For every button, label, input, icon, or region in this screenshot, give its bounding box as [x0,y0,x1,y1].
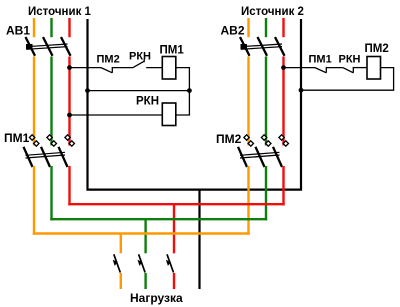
contactor PM1 main contacts [24,135,75,167]
wire load stub phase C [173,273,175,289]
wire phase C drop to load [173,204,175,253]
wire source2 phase C top stub [282,18,284,37]
node junction red-rail1 right [281,65,286,70]
wire neutral source1 vertical+horizontal [88,19,200,190]
wire PM2 coil return loop [301,68,394,91]
label PM2 contactor [216,132,242,146]
contact RKN NO (left circuit) [133,59,162,67]
svg-text:ПМ2: ПМ2 [365,43,389,55]
load switch phase A [113,254,121,272]
wire phase B lower left vertical [50,166,52,220]
node "Нагрузка" label [130,291,183,305]
wire source1 phase A top stub [33,18,35,37]
wire source2 phase B top stub [265,18,267,37]
label RKN coil [136,96,159,108]
wire phase B drop to load [144,219,146,253]
node "Источник 2" label [241,6,304,18]
wire source2 phase B middle [265,57,267,146]
node "Источник 1" label [28,6,92,18]
svg-text:РКН: РКН [136,96,159,108]
wire control2 rail1 [284,67,316,69]
node junction red-rail1 left [67,65,72,70]
label AB2 [221,23,245,37]
svg-text:РКН: РКН [129,50,151,62]
wire control1 rail1 [70,67,102,69]
wire source1 phase A middle [33,57,35,146]
wire phase B lower right vertical [265,166,267,220]
wire control1 rail3 [70,114,163,116]
label PM2 coil [365,43,389,55]
wire phase B bus (green) [50,218,267,220]
label AB1 [6,23,30,37]
svg-text:ПМ1: ПМ1 [4,131,30,145]
wire load stub phase A [120,273,122,289]
wire phase A bus (orange) [33,232,250,234]
node junction red-rail3 left [67,113,72,118]
wire neutral drop to load [198,190,200,289]
wire phase A lower right vertical [247,166,249,235]
svg-text:АВ1: АВ1 [6,23,30,37]
svg-text:Источник 1: Источник 1 [28,6,92,18]
contact PM2 NC (left circuit) [101,67,133,73]
coil RKN [162,103,176,126]
node junction neutral-rail2 left [85,88,90,93]
wire load stub phase B [144,273,146,289]
wire source2 phase A top stub [247,18,249,37]
wire control1 rail2 neutral [88,90,190,92]
wire source1 phase B middle [50,57,52,146]
svg-text:ПМ1: ПМ1 [309,54,332,66]
wire source2 phase A middle [247,57,249,146]
wire phase C bus (red) [68,203,284,205]
wire phase C lower left vertical [68,166,70,205]
node junction return-rail2 left [187,88,192,93]
breaker AB1 [26,37,71,56]
breaker AB2 [240,37,285,56]
wire phase A drop to load [120,234,122,254]
label RKN contact left [129,50,151,62]
svg-text:Нагрузка: Нагрузка [130,291,183,305]
wire source1 phase B top stub [50,18,52,37]
coil PM2 [367,57,381,80]
load switch phase C [166,254,174,272]
wire source1 phase C top stub [68,18,70,37]
svg-text:РКН: РКН [339,54,361,66]
node junction neutral-rail2 right [299,88,304,93]
contact PM1 NC (right circuit) [315,67,343,73]
svg-text:ПМ2: ПМ2 [97,54,120,66]
svg-text:АВ2: АВ2 [221,23,245,37]
wire source1 phase C middle [68,57,70,146]
svg-text:ПМ2: ПМ2 [216,132,242,146]
wire PM1 coil to return [176,68,190,115]
label RKN contact right [339,54,361,66]
contact RKN NC (right circuit) [343,67,367,73]
wire source2 phase C middle [282,57,284,146]
label PM2 contact [97,54,120,66]
coil PM1 [162,57,176,80]
wire neutral source2 vertical+horizontal [200,19,302,190]
label PM1 coil [160,44,185,56]
label PM1 contact right [309,54,332,66]
svg-text:Источник 2: Источник 2 [241,6,304,18]
svg-text:ПМ1: ПМ1 [160,44,185,56]
contactor PM2 main contacts [238,135,289,167]
wire phase A lower left vertical [33,166,35,235]
load switch phase B [138,254,146,272]
label PM1 contactor [4,131,30,145]
wire phase C lower right vertical [282,166,284,205]
